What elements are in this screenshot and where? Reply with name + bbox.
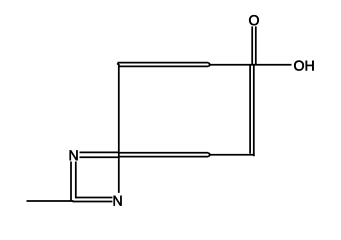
atom label N1: [70, 150, 78, 160]
small ring N1=C4 double bond (left edge): [70, 162, 72, 202]
small ring N1=C2 double bond: [80, 151, 119, 153]
atom label O of OH (hydroxyl): [294, 61, 304, 71]
methyl bond: [27, 200, 74, 202]
atom label H of OH (hydroxyl): [306, 61, 314, 71]
atom label N3: [114, 196, 122, 206]
atom label O (carbonyl): [249, 15, 259, 25]
carbonyl C=O double bond: [251, 26, 253, 64]
left edge singles + bond down to ring N: [118, 64, 120, 193]
right edge double bonds: [249, 65, 251, 154]
bottom edge cumulated double bonds: [119, 152, 209, 154]
top edge single bond: [209, 64, 255, 66]
bottom edge single bond: [209, 154, 255, 156]
C-OH single bond: [254, 64, 292, 66]
top edge cumulated double bonds: [118, 62, 209, 64]
small ring C4=N3 double bond (bottom edge): [75, 197, 112, 199]
